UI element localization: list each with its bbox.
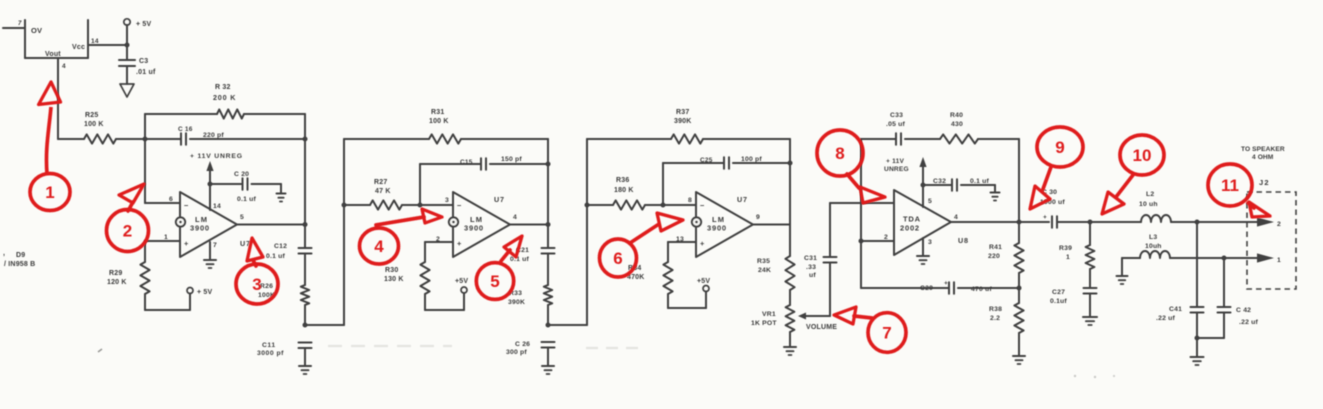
svg-text:R39: R39 [1059, 245, 1072, 252]
J2 pin 1 arrow [1257, 253, 1281, 264]
capacitor C16 220 pf [145, 126, 305, 145]
pin 14 (Vcc) wire of U6 [88, 38, 127, 45]
svg-text:+: + [944, 280, 948, 287]
svg-text:9: 9 [1055, 138, 1064, 157]
svg-text:Vout: Vout [45, 51, 61, 58]
svg-text:−: − [457, 201, 462, 210]
svg-text:2002: 2002 [900, 224, 920, 233]
capacitor C20 0.1 uf [210, 171, 281, 203]
wire right vertical stage3 [789, 139, 791, 225]
svg-text:D9: D9 [16, 252, 25, 259]
svg-text:R30: R30 [385, 267, 398, 274]
wire feedback left vertical (C33 to C29 line) [860, 139, 862, 288]
resistor R30 130 K [384, 242, 430, 310]
TO SPEAKER 4 OHM label [1241, 146, 1285, 161]
wire right vertical stage1 feedback [304, 114, 306, 224]
ground under C32 [991, 192, 1000, 194]
svg-text:−: − [700, 201, 705, 210]
svg-text:UNREG: UNREG [884, 166, 909, 173]
svg-text:C41: C41 [1169, 306, 1182, 313]
svg-text:220 pf: 220 pf [203, 132, 224, 139]
wire output vertical stage1 [304, 225, 306, 249]
svg-text:14: 14 [91, 38, 99, 45]
svg-text:7: 7 [18, 21, 22, 27]
capacitor C26 300 pf [506, 341, 555, 366]
svg-text:+ 5V: + 5V [197, 289, 213, 296]
resistor R32 200 K (feedback) [145, 84, 305, 119]
svg-text:TO SPEAKER: TO SPEAKER [1241, 146, 1285, 153]
svg-text:5: 5 [928, 198, 932, 205]
resistor R33 390K [508, 285, 552, 325]
ground under VR1 [784, 346, 796, 348]
red callout circle 10 [1120, 135, 1164, 175]
svg-text:2: 2 [123, 222, 132, 241]
node bottom stage1 [303, 323, 308, 328]
svg-text:OV: OV [31, 26, 42, 35]
svg-text:R35: R35 [757, 258, 770, 265]
red arrow 10 [1102, 175, 1133, 214]
svg-text:C 26: C 26 [515, 341, 530, 348]
svg-text:C 42: C 42 [1236, 307, 1251, 314]
svg-text:.01 uf: .01 uf [136, 69, 156, 76]
op-amp U8 TDA2002 [894, 190, 969, 255]
red callout circle 1 [30, 174, 70, 211]
wire Vout pin4 down to R25 [57, 63, 59, 139]
node bottom stage2 [546, 323, 551, 328]
svg-text:+5V: +5V [455, 278, 468, 285]
ground under C26 [542, 365, 554, 367]
svg-text:+ 5V: + 5V [136, 21, 152, 28]
svg-text:C 16: C 16 [178, 126, 193, 133]
svg-text:1: 1 [45, 183, 54, 202]
capacitor C32 0.1 uf [923, 178, 995, 192]
svg-text:U7: U7 [737, 195, 748, 204]
svg-text:R26: R26 [260, 283, 273, 290]
svg-text:4: 4 [513, 214, 517, 221]
svg-text:TDA: TDA [903, 215, 921, 224]
resistor R34 470K [627, 242, 673, 308]
svg-text:VR1: VR1 [762, 311, 776, 318]
svg-text:9: 9 [756, 214, 760, 221]
node R27 input [342, 203, 347, 208]
svg-text:6: 6 [169, 196, 173, 203]
wire R30 to +5V (stage2) [425, 293, 464, 310]
svg-text:uf: uf [809, 272, 816, 279]
svg-text:0.1 uf: 0.1 uf [510, 256, 529, 263]
red arrow 8 [847, 174, 885, 203]
pin 3 stub and ground of U8 [923, 238, 932, 256]
potentiometer VR1 1K POT [751, 305, 830, 347]
red callout circle 8 [817, 130, 863, 176]
svg-text:3900: 3900 [707, 224, 727, 233]
ground (open arrow) under C3 [120, 84, 134, 97]
wire L3 left leg to ground [1121, 258, 1123, 276]
wire node to J2 pin 2 [1197, 221, 1258, 223]
node main output (C30/R39) [1088, 220, 1093, 225]
svg-text:U7: U7 [494, 195, 505, 204]
resistor R36 180 K [587, 177, 696, 210]
red arrow 11 [1248, 202, 1270, 217]
svg-text:R38: R38 [989, 306, 1002, 313]
resistor R40 430 (feedback) [940, 112, 1019, 144]
op-amp U7c LM3900 [676, 192, 753, 257]
IC U6 (partial outline, top-left) [3, 20, 88, 58]
svg-text:U8: U8 [958, 236, 969, 245]
pin 9 output wire of U7c [753, 214, 790, 225]
svg-text:200 K: 200 K [213, 93, 236, 102]
+5V terminal (stage3) [697, 278, 710, 292]
wire output vertical stage2 [547, 225, 549, 249]
resistor R26 100K [258, 283, 309, 325]
op-amp U7a LM3900 [176, 192, 251, 257]
svg-text:390K: 390K [674, 118, 692, 125]
red callout circle 2 [107, 210, 149, 252]
svg-text:.22 uf: .22 uf [1156, 315, 1175, 322]
wire feedback left vertical stage1 [144, 114, 146, 203]
svg-text:+5V: +5V [697, 278, 710, 285]
pin 4 (Vout) stub of U6 [58, 58, 66, 70]
inductor L2 10 uh [1090, 191, 1171, 222]
resistor R27 47 K [344, 179, 453, 210]
+5V terminal (stage1) [187, 288, 213, 297]
svg-text:6: 6 [613, 249, 622, 268]
svg-text:C33: C33 [890, 112, 903, 119]
svg-text:3: 3 [445, 197, 449, 204]
svg-text:10uh: 10uh [1145, 243, 1162, 250]
red callout circle 3 [236, 264, 278, 304]
svg-text:R 32: R 32 [215, 84, 231, 91]
pin 5 output wire of U7a [237, 214, 305, 225]
svg-text:3: 3 [252, 275, 261, 294]
red callout circle 9 [1037, 127, 1083, 167]
svg-text:1: 1 [1277, 257, 1281, 264]
svg-text:C25: C25 [700, 157, 713, 164]
node C41 tap [1195, 220, 1200, 225]
svg-text:R36: R36 [616, 177, 629, 184]
svg-text:100 K: 100 K [84, 121, 104, 128]
capacitor C42 .22 uf [1218, 258, 1259, 338]
capacitor C3 .01 uf [119, 58, 156, 84]
svg-text:C32: C32 [933, 178, 946, 185]
capacitor C15 150 pf [420, 156, 548, 205]
red arrow 5 [501, 236, 522, 261]
op-amp U7b LM3900 [436, 192, 510, 257]
svg-text:100 K: 100 K [429, 118, 449, 125]
node C25/feedback right [788, 161, 793, 166]
svg-text:0.1uf: 0.1uf [1050, 298, 1067, 305]
node C15/feedback right [546, 162, 551, 167]
capacitor C11 3000 pf [257, 342, 312, 366]
svg-text:11: 11 [1221, 176, 1239, 195]
red callout circle 4 [360, 228, 399, 264]
svg-text:Vcc: Vcc [72, 44, 85, 51]
node A1 (junction R25/C16/feedback) [143, 137, 148, 142]
capacitor C31 .33 uf [804, 203, 837, 316]
ground under R38 [1013, 355, 1025, 357]
svg-text:R29: R29 [109, 270, 122, 277]
pin 2 input wire of U8 [859, 234, 895, 244]
svg-text:R41: R41 [989, 244, 1002, 251]
svg-text:+ 11V: + 11V [886, 158, 904, 165]
red callout circle 7 [868, 313, 906, 353]
svg-text:R31: R31 [431, 109, 444, 116]
inductor L3 10uh [1122, 234, 1224, 258]
resistor R31 100 K [344, 109, 548, 144]
svg-text:2: 2 [884, 234, 888, 241]
ground under pin 3 [917, 255, 929, 257]
capacitor C33 .05 uf (feedback) [861, 112, 940, 145]
capacitor C25 100 pf [663, 156, 790, 205]
pin 4 output wire of U8 [951, 214, 1049, 222]
svg-text:0.1 uf: 0.1 uf [970, 178, 989, 185]
svg-text:24K: 24K [758, 267, 771, 274]
svg-text:430: 430 [951, 121, 963, 128]
resistor R38 2.2 [989, 288, 1024, 356]
node R36 input [585, 203, 590, 208]
ground under pin 7 [204, 259, 216, 261]
J2 pin 2 arrow [1257, 217, 1281, 228]
capacitor C21 0.1 uf [510, 247, 555, 285]
svg-text:10: 10 [1133, 146, 1152, 165]
svg-text:7: 7 [213, 242, 217, 249]
resistor R29 120 K [107, 241, 150, 310]
svg-text:C3: C3 [139, 58, 148, 65]
red arrow 1 [39, 82, 61, 174]
pin 1 input wire of U7a [145, 234, 180, 241]
node C29/R41/R38 [1017, 286, 1022, 291]
wire stage2 to stage3 [548, 139, 587, 325]
capacitor C27 0.1uf [1050, 288, 1097, 317]
node junction R32/right vertical [303, 137, 308, 142]
svg-text:390K: 390K [508, 299, 525, 306]
wire feedback right vertical (R40 to output) [1018, 139, 1020, 222]
red arrow 9 [1030, 167, 1051, 209]
svg-text:R25: R25 [85, 112, 98, 119]
red callout circle 11 [1208, 164, 1252, 206]
wire right vertical stage2 [547, 139, 549, 225]
svg-text:.05 uf: .05 uf [886, 121, 905, 128]
svg-text:1: 1 [1066, 254, 1070, 261]
svg-text:+: + [184, 239, 189, 248]
svg-text:1: 1 [164, 234, 168, 241]
svg-text:47 K: 47 K [375, 188, 391, 195]
capacitor C41 .22 uf [1156, 222, 1204, 338]
+11V UNREG supply arrow (U8) [884, 157, 927, 188]
svg-text:C11: C11 [262, 342, 276, 349]
resistor R35 24K [757, 225, 795, 306]
node C15 tap on pin3 wire [418, 203, 423, 208]
svg-text:C15: C15 [460, 159, 473, 166]
svg-text:3000 pf: 3000 pf [257, 350, 284, 357]
svg-text:C 20: C 20 [234, 171, 249, 178]
pin 2 input wire of U7b [425, 241, 453, 243]
svg-text:J2: J2 [1259, 178, 1270, 187]
wire R29 to +5V [145, 294, 190, 311]
+11V UNREG supply arrow (stage1) [190, 153, 243, 187]
svg-text:150 pf: 150 pf [501, 156, 522, 163]
red arrow 4 [376, 209, 442, 225]
svg-text:C27: C27 [1052, 289, 1065, 296]
wire stage1 to stage2 [305, 139, 344, 325]
resistor R37 390K [587, 109, 790, 144]
svg-text:C29: C29 [920, 285, 933, 292]
svg-text:3900: 3900 [464, 224, 484, 233]
pin 5 stub of U8 [923, 185, 932, 207]
ground under C11 [299, 365, 311, 367]
svg-text:+: + [700, 239, 705, 248]
pin 14 stub of U7a [210, 184, 221, 210]
svg-text:1K POT: 1K POT [751, 320, 777, 327]
svg-text:3900: 3900 [190, 224, 210, 233]
red callout circle 5 [476, 263, 513, 300]
wire C31 to pin 1 of U8 [830, 202, 894, 204]
svg-text:L3: L3 [1149, 234, 1157, 241]
svg-text:5: 5 [490, 272, 499, 291]
ground under L3 [1117, 275, 1128, 277]
svg-text:2.2: 2.2 [990, 315, 1000, 322]
svg-text:R27: R27 [374, 179, 387, 186]
svg-text:L2: L2 [1146, 191, 1154, 198]
svg-text:+: + [1043, 214, 1047, 221]
wire joining C41/C42 bottoms [1195, 336, 1225, 358]
ground under C41/C42 [1191, 356, 1204, 358]
node output stage1 [303, 222, 308, 227]
svg-text:10 uh: 10 uh [1139, 201, 1158, 208]
D9 IN958 B label (left edge) [3, 250, 35, 268]
resistor R39 1 [1059, 222, 1094, 288]
svg-text:470 uf: 470 uf [971, 286, 992, 293]
svg-text:5: 5 [240, 214, 244, 221]
svg-text:7: 7 [882, 324, 891, 343]
svg-text:2: 2 [1277, 221, 1281, 228]
svg-text:4: 4 [954, 214, 958, 221]
svg-text:130 K: 130 K [384, 276, 404, 283]
svg-text:.33: .33 [806, 264, 816, 271]
svg-text:14: 14 [213, 203, 221, 210]
svg-text:4 OHM: 4 OHM [1252, 154, 1274, 161]
capacitor C29 470 uf [861, 280, 1019, 294]
svg-text:C31: C31 [804, 255, 817, 262]
red arrow 2 [119, 184, 144, 211]
connector J2 dashed outline [1247, 178, 1296, 289]
pin 7 stub and ground of U7a [210, 242, 217, 260]
red arrow 7 [834, 307, 872, 324]
svg-text:+ 11V UNREG: + 11V UNREG [190, 153, 243, 160]
pin 13 input wire of U7c [668, 241, 696, 243]
svg-text:C12: C12 [274, 243, 287, 250]
node C25 tap on pin8 wire [661, 203, 666, 208]
capacitor C12 0.1 uf [266, 243, 312, 285]
svg-text:180 K: 180 K [614, 187, 634, 194]
svg-text:,: , [3, 250, 5, 257]
svg-text:8: 8 [688, 197, 692, 204]
node feedback/output U8 [1017, 220, 1022, 225]
svg-text:300 pf: 300 pf [506, 349, 527, 356]
ground under C20 [277, 193, 286, 195]
capacitor C30 1000 uf (series) [1040, 189, 1065, 228]
svg-text:−: − [184, 201, 189, 210]
pin 4 output wire of U7b [510, 214, 548, 225]
ground under C27 [1083, 316, 1097, 318]
node C42 tap [1222, 256, 1227, 261]
svg-text:R40: R40 [950, 112, 963, 119]
svg-text:4: 4 [62, 63, 66, 70]
svg-text:R37: R37 [676, 109, 689, 116]
svg-text:4: 4 [374, 237, 384, 256]
svg-text:0.1 uf: 0.1 uf [237, 196, 256, 203]
wire L2 to node C41 [1171, 221, 1197, 223]
faint scan marks [98, 346, 1115, 378]
red arrow 3 [247, 238, 263, 266]
svg-text:VOLUME: VOLUME [806, 324, 837, 331]
+5V terminal (stage2) [455, 278, 468, 293]
wire node to J2 pin 1 [1224, 257, 1258, 259]
svg-text:/ IN958 B: / IN958 B [4, 261, 35, 268]
svg-text:220: 220 [988, 253, 1000, 260]
svg-text:120 K: 120 K [107, 279, 127, 286]
resistor R41 220 [988, 222, 1024, 288]
wire C30 to node 10 [1057, 221, 1090, 223]
svg-text:8: 8 [835, 144, 844, 163]
wire R34 to +5V (stage3) [668, 292, 706, 309]
svg-text:0.1 uf: 0.1 uf [266, 253, 285, 260]
svg-text:3: 3 [928, 239, 932, 246]
svg-text:100 pf: 100 pf [741, 156, 762, 163]
wire pin 6 input [145, 196, 180, 203]
svg-text:+: + [457, 239, 462, 248]
node output stage2 [546, 222, 551, 227]
+5V supply terminal [124, 19, 152, 60]
svg-text:.22 uf: .22 uf [1239, 319, 1258, 326]
red callout circle 6 [600, 239, 637, 277]
resistor R25 100 K [58, 112, 145, 144]
red arrow 6 [630, 213, 683, 243]
